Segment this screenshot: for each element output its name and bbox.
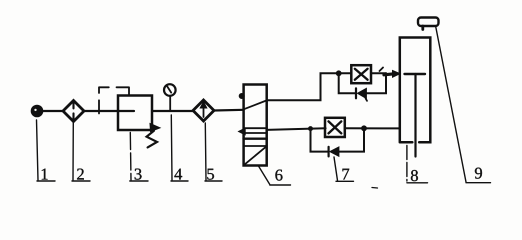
check valve 7a (upper)	[339, 73, 386, 101]
filter 2	[63, 101, 84, 122]
node junction lower-right	[362, 126, 367, 131]
label 1	[37, 120, 56, 181]
throttle valve 7a (upper)	[351, 65, 371, 83]
label 4	[171, 115, 188, 181]
label 7	[334, 157, 354, 181]
label 8	[407, 146, 428, 183]
label 3	[130, 133, 148, 182]
node junction lower-left	[309, 127, 313, 131]
pilot line (dashed)	[99, 87, 129, 113]
cylinder 8	[400, 38, 431, 143]
wire lubricator to valve	[214, 109, 244, 112]
label 9	[436, 27, 491, 183]
wire valve top output	[267, 73, 351, 100]
throttle valve 7b (lower)	[325, 118, 345, 137]
label 6	[259, 166, 291, 185]
spring	[147, 131, 157, 148]
wire valve bottom output	[267, 128, 326, 130]
node junction upper	[336, 71, 341, 76]
wire regulator to lubricator	[152, 110, 193, 112]
flow arrow into cylinder (thick)	[380, 68, 401, 78]
stray mark	[372, 187, 378, 190]
lubricator 5	[193, 100, 214, 121]
label 2	[72, 122, 90, 181]
check valve 7b (lower)	[311, 128, 365, 156]
label 5	[205, 123, 222, 181]
wire filter to regulator	[84, 110, 134, 112]
pressure gauge 4	[164, 84, 176, 111]
piston	[405, 74, 426, 157]
air source 1	[32, 106, 41, 115]
pressure regulator 3	[118, 96, 160, 132]
directional valve 6	[239, 85, 267, 166]
wire throttle 7a to cylinder	[371, 72, 386, 74]
stop button 9	[418, 18, 439, 30]
wire throttle 7b to cylinder	[345, 127, 400, 129]
wire source to filter	[43, 110, 64, 112]
